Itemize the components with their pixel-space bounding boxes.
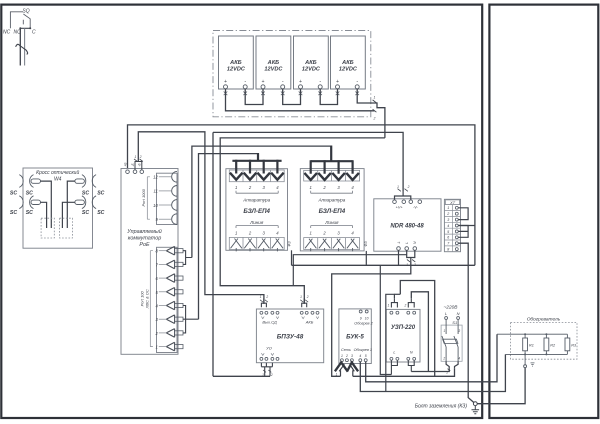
svg-text:ФЗ: ФЗ [364,241,368,247]
resistor R2 [544,338,549,351]
breaker QF box [441,325,462,361]
svg-text:R1: R1 [529,344,534,348]
svg-text:8: 8 [447,248,449,252]
UZP top terminals [390,311,416,314]
NDR input bracket [395,192,411,200]
svg-text:АКБ: АКБ [229,60,241,66]
switch S? NC lead [10,12,23,29]
svg-text:1: 1 [406,263,408,267]
PoE port 2 [154,329,183,338]
UZP top-right bracket [408,298,414,307]
svg-text:⏚: ⏚ [397,240,401,244]
svg-text:-Б: -Б [138,163,142,166]
svg-text:1: 1 [443,329,445,333]
svg-text:3: 3 [447,218,449,222]
PoE gigabit port panel [157,173,178,224]
wire W6 drop thick [330,146,332,162]
switch S? lever [23,14,30,28]
svg-text:РоЕ: РоЕ [139,242,150,248]
wire W3 to BPZU UO [213,375,270,377]
svg-text:L: L [393,351,395,355]
svg-text:1: 1 [310,230,312,235]
PoE port 8 [155,246,183,255]
switch S? common bar [20,27,30,29]
BPZU top-right terminals [300,311,319,314]
svg-text:3: 3 [458,329,460,333]
UZP outer loop [400,281,434,377]
svg-text:12VDC: 12VDC [339,67,358,73]
svg-text:SC: SC [10,191,17,197]
wire W5 battery to BPZU AKB [220,138,385,304]
wire battery plus out [226,89,375,111]
wire BUK mains to breaker [353,368,455,376]
svg-text:L: L [445,311,447,316]
BZL2 Apparatura bracket [311,191,353,193]
svg-text:SC: SC [82,210,89,216]
svg-text:5: 5 [365,354,367,358]
svg-text:12VDC: 12VDC [227,67,246,73]
SC connector right-top [75,175,96,188]
BPZU UO bracket [261,363,272,372]
XT numbers [446,206,450,251]
PoE port 5 [155,288,183,297]
BPZU-48 box [256,309,323,363]
svg-text:12VDC: 12VDC [264,67,283,73]
svg-text:-V-: -V- [413,206,419,210]
UZP top-left bracket [391,298,397,307]
BUK-5 box [339,309,371,364]
svg-text:1: 1 [235,185,237,190]
svg-text:9: 9 [360,316,362,320]
resistor R3 [565,338,570,351]
svg-text:БЗЛ-ЕП4: БЗЛ-ЕП4 [243,208,270,215]
svg-text:N: N [410,351,413,355]
svg-text:1: 1 [397,185,399,189]
wire W2 PoE pair feed [138,132,264,304]
wire from NO down [19,28,21,65]
optical cross box [23,168,93,248]
battery GB4 [331,36,366,95]
svg-text:1: 1 [341,354,343,358]
wire breaker to UZP [411,368,449,371]
svg-text:NC: NC [3,30,11,36]
svg-text:АКБ: АКБ [304,60,316,66]
Port 1000 bracket [147,177,150,219]
svg-text:1: 1 [310,185,312,190]
heater ground wire to bolt [477,368,525,404]
BZL1 top connector row [229,170,284,182]
svg-text:АКБ: АКБ [341,60,353,66]
PoE top terminal 1 [126,170,130,174]
XT rows [444,205,460,252]
fibre wire right-top [67,181,75,228]
svg-text:6: 6 [447,236,449,240]
svg-text:Болт заземления (КЗ): Болт заземления (КЗ) [415,403,468,409]
cable gland left [41,218,54,238]
svg-text:N: N [457,311,460,316]
heater bottom rail [505,353,567,355]
PoE port 12 [172,171,177,182]
wire W6 to BZL2 [192,146,331,257]
svg-text:Аппаратура: Аппаратура [242,198,270,203]
UZP bottom-left bracket [391,361,397,375]
wire NDR AC to BUK mains [332,262,411,376]
svg-text:Сеть: Сеть [341,348,351,352]
svg-text:УЗП-220: УЗП-220 [391,325,416,331]
PoE port 9 [172,214,177,225]
svg-text:2: 2 [306,295,309,299]
svg-text:~220В: ~220В [443,305,458,311]
svg-text:Обогреватель: Обогреватель [527,316,561,322]
NDR AC output bracket [407,250,415,262]
wire UZP PE riser to ground bus [380,265,391,374]
svg-text:2: 2 [373,117,376,121]
wire port pair 4-3 bracket [183,306,199,333]
svg-text:+: + [262,79,265,85]
wire W3 NDR feed [213,132,403,376]
svg-text:1: 1 [336,373,338,377]
heater dashed box [511,323,578,360]
NDR bottom terminals [397,247,401,251]
Port 100 bracket [150,251,153,347]
svg-text:SC: SC [26,191,33,197]
cable slash mark [16,44,28,54]
BPZU UO wires down [265,372,270,377]
SC connector right-bottom [75,196,96,209]
wire battery series GB1-GB2 [245,89,263,105]
svg-text:Кросс оптический: Кросс оптический [36,169,79,176]
UZP bottom-right bracket [408,361,414,372]
cable gland right [60,218,73,238]
svg-text:SC: SC [97,210,104,216]
svg-text:4: 4 [447,224,449,228]
svg-text:2: 2 [413,263,416,267]
svg-text:NDR 480-48: NDR 480-48 [390,223,424,229]
BZL2 line arrows [305,239,316,252]
svg-text:1: 1 [262,373,264,377]
svg-text:+: + [299,79,302,85]
NDR top terminals [393,200,397,204]
wire W7 to BZL1 [199,154,259,320]
BZL-EP4 #1 box [226,169,288,251]
svg-text:1: 1 [135,155,137,159]
wire from C down [24,28,26,65]
PoE port 3 [155,315,183,324]
svg-text:12: 12 [153,175,158,180]
PoE switch box [121,169,178,355]
svg-text:SC: SC [10,210,17,216]
UZP loop inner [386,294,395,391]
svg-text:2: 2 [442,356,445,360]
svg-text:БЗЛ-ЕП4: БЗЛ-ЕП4 [319,208,346,215]
svg-text:4: 4 [359,354,361,358]
svg-text:10: 10 [365,316,369,320]
XT header [446,200,460,205]
svg-text:+: + [224,79,227,85]
SC connector left-bottom [19,196,40,209]
BPZU bottom terminals [261,353,273,355]
svg-text:5: 5 [447,230,449,234]
svg-text:4: 4 [458,356,460,360]
breaker input terminals [445,317,448,320]
svg-text:УО: УО [266,345,272,350]
BPZU top-left terminals [260,311,279,314]
svg-text:БПЗУ-48: БПЗУ-48 [277,334,304,341]
UZP loop from NDR branch [411,292,428,372]
svg-text:1: 1 [260,295,262,299]
BZL-EP4 #2 box [300,169,364,251]
XT row7 earth wire to bolt [459,243,474,402]
svg-text:+V+: +V+ [396,206,404,210]
ground bolt [473,402,477,406]
svg-text:2: 2 [404,304,407,308]
svg-text:1: 1 [446,371,448,375]
svg-text:2: 2 [345,354,348,358]
BZL2 top connector row [304,170,360,181]
PoE port 6 [155,274,183,283]
wire W7 drop thick [257,153,259,161]
XT screws [455,206,458,250]
BZL2 bottom connector row [304,238,360,250]
battery enclosure dash-dot box [213,31,371,117]
PoE port 1 [155,342,183,351]
svg-text:ЛВС & ОС: ЛВС & ОС [145,289,150,309]
wire battery series GB3-GB4 [320,89,337,105]
BZL2 feeder bracket thick [311,160,353,162]
svg-text:1: 1 [388,304,390,308]
XT jumper 4-5-6 [459,226,469,238]
BZL1 feeder bracket thick [232,160,281,162]
BZL1 line arrows [231,239,242,252]
wire battery minus out [357,89,385,138]
svg-text:SC: SC [26,210,33,216]
BZL1 FZ ground wire [291,250,293,265]
svg-text:Линия: Линия [249,220,264,225]
cabinet outline right [489,5,598,418]
svg-text:коммутатор: коммутатор [128,236,161,242]
svg-text:БУК-5: БУК-5 [346,334,364,341]
svg-text:АКБ: АКБ [267,60,279,66]
wire battery series GB2-GB3 [283,89,301,105]
svg-text:АКБ: АКБ [305,319,314,324]
svg-text:Аппаратура: Аппаратура [317,198,345,203]
BZL1 bottom connector row [229,237,284,249]
svg-text:-Б: -Б [131,163,135,166]
BZL2 FZ ground wire [365,251,367,265]
cabinet outline left [1,5,482,418]
SC connector left-top [19,175,40,188]
NDR 480-48 box [374,199,441,251]
XT terminal strip box [444,199,460,251]
fibre wire left-bottom [41,202,47,228]
svg-text:Обогрев 2: Обогрев 2 [354,322,373,326]
svg-text:Обогрев 1: Обогрев 1 [354,348,372,352]
battery GB1 [219,36,254,95]
svg-text:2: 2 [139,155,142,159]
ground bolt earth symbol [472,406,480,414]
BUK heater2 terminals [359,310,362,313]
PoE port 10 [172,200,177,211]
battery connector pin 1 [373,100,377,103]
svg-text:Управляемый: Управляемый [126,228,162,235]
ground bus wire [292,264,475,266]
svg-text:1: 1 [374,96,376,100]
svg-text:SC: SC [82,191,89,197]
wire port pair 8-7 bracket [183,251,192,265]
svg-text:2: 2 [265,295,268,299]
BZL2 input arrows [304,173,317,180]
resistor R1 [523,338,528,351]
svg-text:ФЗ: ФЗ [288,241,292,247]
NDR earth wire to bus [398,250,400,265]
heater junction dots [524,333,526,335]
heater ground terminal [524,354,526,364]
svg-text:C: C [32,30,36,36]
battery connector pin 2 [373,109,377,112]
svg-text:11: 11 [153,189,157,194]
svg-text:Port 1000: Port 1000 [141,188,146,206]
wire BUK pin5 to heater top [366,334,497,382]
PoE port 7 [155,260,183,269]
svg-text:1: 1 [447,206,449,210]
PoE port 4 [155,301,183,310]
svg-text:1: 1 [235,230,237,235]
PoE port 11 [172,186,177,197]
BUK mains stems [341,370,353,376]
svg-text:+Б: +Б [123,163,127,167]
BZL1 input arrows [230,173,243,180]
BZL1 Apparatura bracket [236,191,278,193]
BPZU AKB bracket [302,298,307,307]
svg-text:10: 10 [153,203,158,208]
svg-text:2: 2 [446,212,449,216]
wire AC tap to BPZU [293,255,406,286]
wire W1 PoE power bus [128,125,475,265]
PoE 100M port panel [157,247,178,352]
svg-text:SC: SC [97,191,104,197]
svg-text:+: + [336,79,339,85]
svg-text:S1: S1 [452,320,457,325]
PoE top terminal 2 [133,170,137,174]
UZP-220 box [386,309,420,362]
PoE top terminal 3 [140,170,144,174]
battery GB3 [294,36,329,95]
fibre wire left-top [41,181,52,228]
svg-text:L: L [405,242,409,244]
breaker linkage [443,339,458,343]
heater top rail [497,333,567,335]
BUK mains plug arrows [335,362,358,371]
svg-text:3: 3 [351,354,353,358]
BUK bottom terminals [340,359,367,362]
svg-text:Вых.СД: Вых.СД [262,319,276,324]
XT jumper 1-3 [459,208,469,220]
BPZU Vyh bracket [261,298,266,307]
svg-text:W4: W4 [54,177,62,183]
fibre wire right-bottom [62,202,75,228]
breaker poles [442,320,446,362]
UZP bottom terminals [390,357,416,360]
battery GB2 [256,36,291,95]
PoE feed bracket [135,162,142,170]
svg-text:1: 1 [155,345,157,350]
XT row4 to ground riser [459,225,475,227]
svg-text:12VDC: 12VDC [302,67,321,73]
svg-text:1: 1 [300,295,302,299]
svg-text:SQ: SQ [22,9,29,15]
breaker output bracket [446,361,458,368]
svg-text:2: 2 [407,185,410,189]
wire BUK pin4 to heater bottom [360,354,505,391]
svg-text:Линия: Линия [324,220,339,225]
